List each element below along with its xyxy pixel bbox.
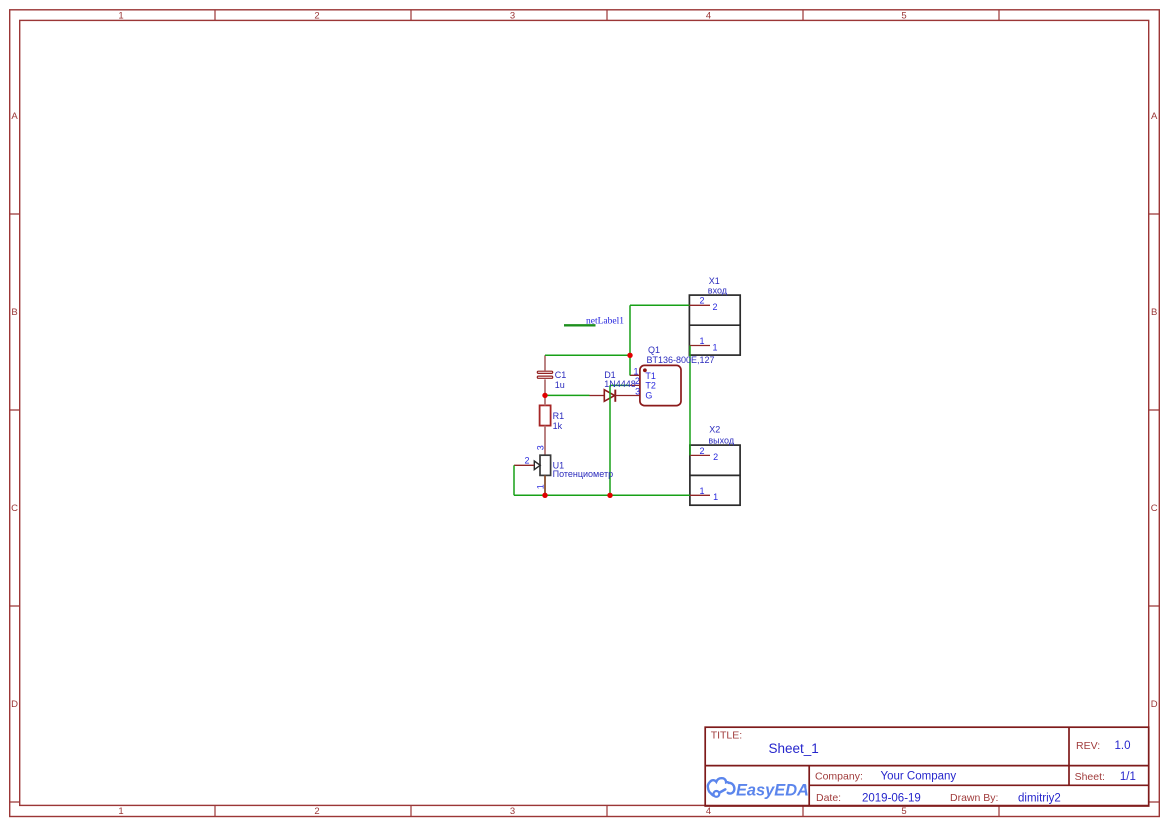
svg-text:2: 2: [713, 452, 718, 462]
TEXT LABELS: [553, 276, 735, 479]
svg-text:Потенциометр: Потенциометр: [553, 469, 613, 479]
title block divider horizontal 2: [809, 784, 1148, 786]
svg-text:1: 1: [699, 486, 704, 496]
frame column ticks bottom: [215, 805, 999, 816]
svg-text:5: 5: [901, 806, 906, 817]
svg-text:Sheet:: Sheet:: [1075, 771, 1105, 783]
svg-text:1: 1: [118, 11, 123, 22]
EasyEDA logo cloud icon: [708, 778, 735, 797]
svg-text:C: C: [1151, 503, 1158, 514]
connector X1 divider: [689, 324, 740, 326]
svg-text:A: A: [11, 111, 18, 122]
potentiometer U1 wiper arrow: [534, 461, 540, 470]
frame row ticks left: [10, 214, 20, 802]
wire D1 bypass vertical: [609, 385, 611, 495]
TITLE BLOCK: [705, 727, 1148, 806]
svg-text:REV:: REV:: [1076, 740, 1100, 752]
svg-text:1: 1: [713, 492, 718, 502]
svg-text:3: 3: [510, 806, 515, 817]
diode D1 cathode lead to Q1 gate: [615, 395, 640, 397]
svg-text:вход: вход: [708, 286, 728, 296]
wire Q1 pin2 horizontal: [610, 384, 630, 386]
potentiometer U1 pin1 lead: [544, 475, 546, 495]
svg-text:C: C: [11, 503, 18, 514]
diode D1 anode lead: [590, 395, 605, 397]
svg-text:3: 3: [510, 11, 515, 22]
junction dots: [542, 353, 632, 498]
title block divider horizontal 1: [705, 765, 1148, 767]
svg-text:B: B: [11, 307, 17, 318]
svg-text:R1: R1: [553, 411, 565, 421]
connector X2 pin stubs: [690, 455, 710, 495]
svg-text:D: D: [1151, 699, 1158, 710]
diode D1 triangle: [604, 390, 614, 402]
svg-text:BT136-800E,127: BT136-800E,127: [647, 355, 715, 365]
svg-text:4: 4: [706, 806, 711, 817]
triac Q1 pin1 dot: [643, 368, 647, 372]
svg-text:EasyEDA: EasyEDA: [736, 782, 809, 800]
title block divider vertical logo: [808, 766, 810, 806]
connector X1 pin stubs: [689, 305, 710, 345]
svg-text:netLabel1: netLabel1: [586, 316, 624, 326]
svg-text:1: 1: [633, 366, 638, 376]
svg-text:X2: X2: [709, 425, 720, 435]
svg-text:2019-06-19: 2019-06-19: [862, 792, 921, 804]
svg-text:D: D: [11, 699, 18, 710]
svg-text:1u: 1u: [555, 380, 565, 390]
svg-text:1: 1: [699, 336, 704, 346]
svg-text:1: 1: [536, 484, 546, 489]
wire X1 pin1 to X2 pin2: [689, 346, 691, 456]
svg-text:2: 2: [314, 806, 319, 817]
connector X2 divider: [690, 474, 740, 476]
svg-text:2: 2: [314, 11, 319, 22]
capacitor C1 leads: [544, 355, 546, 395]
junction T1 node: [627, 353, 632, 358]
capacitor C1 plates: [537, 371, 552, 378]
svg-text:2: 2: [699, 446, 704, 456]
frame row ticks right: [1149, 214, 1160, 802]
wire bottom rail: [514, 494, 690, 496]
svg-text:1N4448: 1N4448: [604, 379, 636, 389]
wire left vertical: [513, 465, 515, 495]
svg-text:3: 3: [635, 387, 640, 397]
potentiometer U1 body: [540, 455, 551, 475]
netLabel1 wire stub: [564, 324, 596, 326]
wire C1 top to T1 node: [545, 354, 630, 356]
svg-text:B: B: [1151, 307, 1157, 318]
svg-text:1/1: 1/1: [1120, 771, 1136, 783]
junction bypass bottom: [607, 493, 612, 498]
svg-text:T1: T1: [645, 371, 656, 381]
connector X2 body: [690, 445, 740, 505]
connector X1 body: [689, 295, 740, 355]
svg-text:dimitriy2: dimitriy2: [1018, 792, 1061, 804]
WIRES: [514, 305, 690, 495]
svg-text:3: 3: [536, 445, 546, 450]
svg-text:A: A: [1151, 111, 1158, 122]
svg-text:C1: C1: [555, 370, 567, 380]
diode D1 cathode bar: [614, 390, 616, 402]
resistor R1 leads: [544, 395, 546, 455]
triac Q1 body: [640, 365, 681, 405]
svg-text:Date:: Date:: [816, 792, 841, 804]
svg-text:2: 2: [699, 296, 704, 306]
triac Q1 pin stubs: [630, 375, 640, 385]
svg-text:5: 5: [901, 11, 906, 22]
svg-text:1: 1: [118, 806, 123, 817]
junction U1 bottom: [542, 493, 547, 498]
svg-text:Q1: Q1: [648, 345, 660, 355]
resistor R1: [540, 405, 551, 425]
svg-text:1.0: 1.0: [1115, 740, 1131, 752]
svg-text:Sheet_1: Sheet_1: [769, 741, 819, 756]
svg-text:Company:: Company:: [815, 770, 863, 782]
svg-text:выход: выход: [708, 435, 734, 445]
frame column ticks top: [215, 10, 999, 21]
svg-text:G: G: [645, 390, 652, 400]
svg-text:T2: T2: [645, 381, 656, 391]
wire vertical X1.2 down to Q1 pin1: [629, 305, 631, 375]
title block outer rect: [705, 727, 1148, 806]
svg-text:2: 2: [635, 376, 640, 386]
svg-text:X1: X1: [709, 276, 720, 286]
svg-text:4: 4: [706, 11, 711, 22]
svg-text:1k: 1k: [553, 421, 563, 431]
title block divider vertical rev/sheet: [1068, 727, 1070, 785]
svg-text:Drawn By:: Drawn By:: [950, 792, 998, 804]
wire to X1 pin 2: [630, 304, 689, 306]
wire C1 bottom to D1 anode: [545, 394, 590, 396]
svg-text:2: 2: [713, 302, 718, 312]
junction C1 bottom: [542, 393, 547, 398]
svg-text:TITLE:: TITLE:: [711, 729, 743, 741]
potentiometer U1 pin2 lead: [514, 464, 534, 466]
svg-text:Your Company: Your Company: [881, 771, 957, 783]
svg-text:2: 2: [525, 456, 530, 466]
svg-text:1: 1: [713, 343, 718, 353]
